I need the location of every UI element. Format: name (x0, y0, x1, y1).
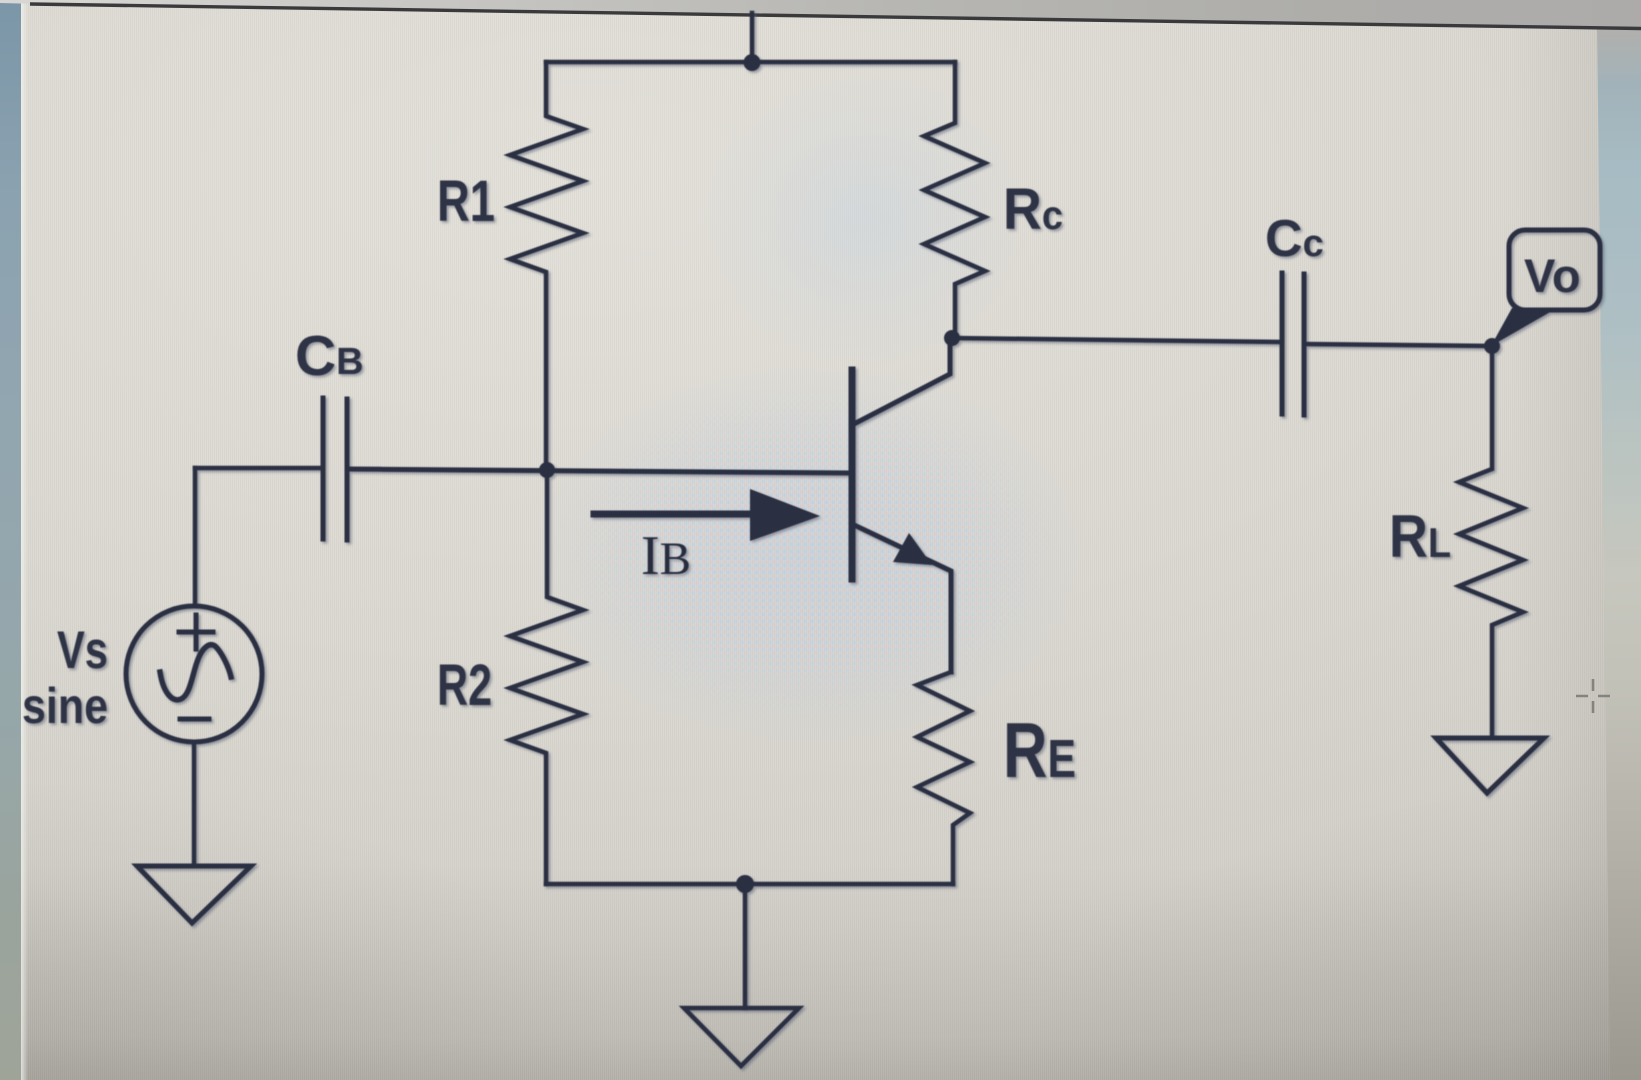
ground center (684, 1008, 799, 1066)
node output junction dot (1484, 338, 1500, 354)
wire from source to CB (195, 466, 323, 471)
ground RL (1436, 738, 1544, 793)
arrow IB current (594, 511, 755, 518)
transistor Q1 bar (849, 370, 856, 579)
source Vs minus (180, 717, 209, 722)
transistor Q1 emitter branch (852, 524, 951, 672)
wire base (from CB to transistor base) (347, 469, 849, 473)
wire top supply rail (546, 60, 955, 65)
wire Vs to base wire (193, 468, 198, 605)
wire bottom rail (546, 882, 953, 887)
resistor RE (917, 672, 970, 884)
label box Vo (1491, 230, 1600, 346)
node collector junction dot (944, 330, 960, 346)
source Vs circle (126, 606, 262, 742)
source Vs plus (179, 615, 213, 649)
wire Cc to output node (1305, 344, 1492, 346)
capacitor Cc (1282, 273, 1304, 415)
wire power stub (750, 13, 755, 62)
transistor Q1 collector branch (852, 338, 950, 425)
resistor Rc (924, 62, 985, 330)
resistor R1 (510, 62, 583, 468)
resistor R2 (510, 470, 583, 884)
capacitor CB (323, 398, 347, 540)
wire Vs to ground (192, 742, 197, 866)
resistor RL (1459, 346, 1523, 738)
source Vs sine wave (160, 645, 231, 700)
transistor Q1 emitter arrowhead (893, 533, 932, 565)
cursor crosshair (1576, 679, 1610, 713)
wire collector to Cc (952, 338, 1281, 342)
wire ground stub center (743, 884, 748, 1008)
ground source (137, 866, 251, 923)
node bottom rail junction dot (736, 875, 754, 893)
node junction dot on top rail (744, 54, 761, 71)
node base junction dot (539, 462, 555, 478)
